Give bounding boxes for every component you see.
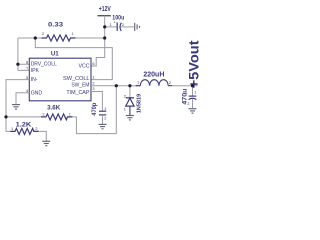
inductor L1 220uH	[136, 71, 173, 85]
svg-text:1: 1	[92, 75, 94, 80]
junction switch node / feedback tap	[115, 84, 118, 87]
wire L1 to output node	[172, 85, 197, 87]
svg-text:2: 2	[35, 126, 37, 131]
svg-text:1N5819: 1N5819	[137, 93, 143, 113]
ground (sideways) right of C1	[135, 23, 140, 31]
supply +12V symbol	[98, 6, 112, 16]
svg-text:2: 2	[187, 101, 189, 106]
svg-text:2: 2	[124, 94, 126, 99]
svg-text:TIM_CAP: TIM_CAP	[66, 90, 90, 96]
svg-text:+12V: +12V	[99, 6, 111, 13]
svg-text:2: 2	[42, 31, 44, 36]
wire node A down and right to SW_COLL	[35, 38, 112, 80]
ground under diode	[126, 116, 134, 120]
resistor R1 0.33	[42, 22, 76, 41]
svg-text:U1: U1	[51, 50, 59, 57]
svg-text:+5Vout: +5Vout	[186, 40, 200, 89]
wire VCC from +12V node	[91, 38, 105, 66]
svg-text:2: 2	[122, 22, 124, 27]
capacitor C2 470p	[92, 102, 106, 124]
wire +12V down	[104, 16, 106, 38]
svg-text:2: 2	[169, 80, 171, 85]
svg-text:IN-: IN-	[31, 77, 38, 83]
wire TIM_CAP to C2	[91, 92, 102, 111]
svg-text:1: 1	[194, 90, 196, 95]
svg-text:3: 3	[92, 86, 94, 91]
ground under pin 4	[12, 105, 20, 109]
ground under C2	[99, 124, 107, 128]
junction +12V / R1 node	[103, 36, 106, 39]
capacitor 100u	[110, 14, 125, 31]
junction R1 left node A	[34, 36, 37, 39]
ground under R3	[42, 141, 50, 145]
svg-text:GND: GND	[31, 91, 43, 97]
svg-text:1: 1	[11, 126, 13, 131]
wire feedback from switch node down	[72, 86, 116, 134]
svg-text:0.33: 0.33	[48, 22, 64, 29]
wire top rail left	[18, 37, 42, 39]
junction pins 8-7 tie	[16, 63, 19, 66]
svg-text:1: 1	[110, 22, 112, 27]
junction switch node / diode	[128, 84, 131, 87]
capacitor C3 470u	[182, 86, 196, 109]
junction output node	[191, 84, 194, 87]
IC U1 box	[26, 50, 95, 101]
ground under C3	[189, 109, 197, 113]
junction feedback divider node	[4, 115, 7, 118]
svg-text:2: 2	[42, 112, 44, 117]
wire left rail down to pins 8,7	[18, 38, 29, 70]
wire node to C1	[105, 26, 117, 28]
wire C1 to ground	[121, 26, 134, 28]
svg-text:1: 1	[69, 112, 71, 117]
svg-text:VCC: VCC	[79, 63, 90, 69]
svg-text:IPK: IPK	[31, 68, 40, 74]
resistor R3 1.2K	[10, 121, 38, 134]
svg-text:1.2K: 1.2K	[16, 121, 32, 128]
junction +12V / C1 node	[103, 25, 106, 28]
svg-text:8: 8	[26, 59, 28, 64]
wire R3 to ground	[39, 131, 47, 141]
svg-text:1: 1	[137, 79, 139, 84]
wire IN- to feedback node	[6, 80, 29, 117]
svg-text:1: 1	[104, 106, 106, 111]
wire node down to R3	[6, 117, 10, 131]
svg-text:SW_COLL: SW_COLL	[63, 76, 90, 82]
svg-text:DRV_COLL: DRV_COLL	[31, 62, 57, 68]
diode D1 1N5819	[124, 86, 143, 116]
svg-text:1: 1	[124, 106, 126, 111]
resistor R2 3.6K	[41, 105, 72, 120]
wire GND pin to ground	[16, 93, 29, 105]
svg-text:7: 7	[26, 66, 28, 71]
svg-text:2: 2	[104, 116, 106, 121]
wire SW_EM switch node	[91, 85, 141, 87]
svg-text:470p: 470p	[92, 102, 98, 115]
svg-text:1: 1	[72, 31, 74, 36]
svg-text:6: 6	[92, 61, 94, 66]
wire R1 to +12V node	[76, 37, 105, 39]
svg-text:SW_EM: SW_EM	[71, 82, 89, 88]
svg-text:2: 2	[92, 81, 94, 86]
svg-text:3.6K: 3.6K	[47, 105, 61, 112]
wire node to R2	[6, 116, 41, 118]
svg-text:220uH: 220uH	[143, 71, 164, 78]
